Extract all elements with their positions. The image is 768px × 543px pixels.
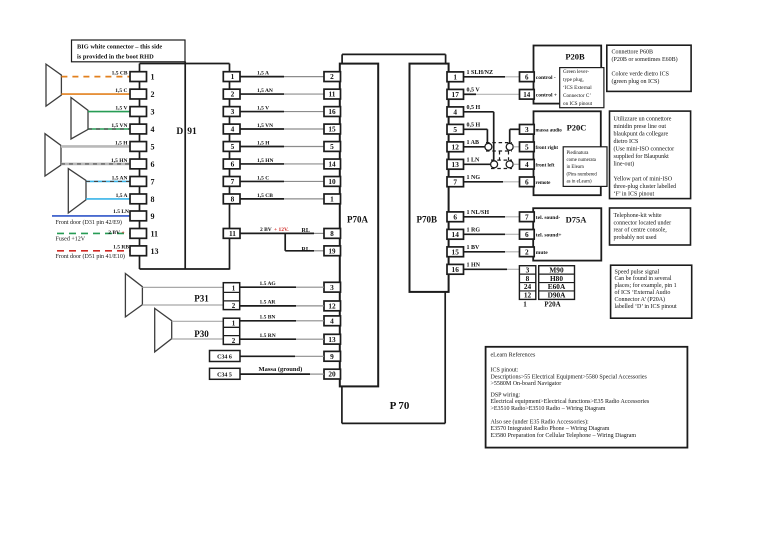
svg-text:Fused +12V: Fused +12V	[56, 237, 86, 243]
speed-pulse pin stack	[519, 266, 535, 300]
wire 1,5 H (grey)	[61, 145, 130, 148]
twisted pair shield (dashed)	[486, 142, 512, 144]
connector D75A box	[533, 208, 601, 260]
svg-text:Speed pulse signal: Speed pulse signal	[615, 269, 660, 275]
svg-text:1,5 H: 1,5 H	[115, 140, 128, 146]
wire 1.5 LN (blue) front door feed	[52, 215, 130, 217]
P70A pin 15	[324, 124, 341, 134]
note box: connettore P60B	[607, 45, 691, 91]
svg-text:16: 16	[328, 107, 336, 116]
svg-text:13: 13	[328, 335, 336, 344]
svg-text:3: 3	[330, 283, 334, 292]
P70B pin 14	[447, 229, 464, 239]
D91 pin 6 (radio side)	[223, 159, 240, 169]
svg-text:P70A: P70A	[347, 215, 368, 225]
svg-text:1: 1	[231, 72, 235, 81]
svg-text:1,5 CB: 1,5 CB	[112, 71, 128, 77]
svg-text:2: 2	[232, 302, 236, 310]
svg-text:1,5 H: 1,5 H	[257, 140, 270, 146]
svg-text:D75A: D75A	[566, 215, 588, 225]
pair node AB-left	[485, 143, 492, 150]
svg-text:1: 1	[232, 285, 236, 293]
D91 pin 7	[130, 177, 147, 187]
D75A pin 7	[520, 212, 535, 222]
svg-text:14: 14	[523, 91, 531, 99]
svg-text:type plug,: type plug,	[563, 77, 584, 83]
wire 0,5 V	[464, 93, 477, 95]
svg-text:2: 2	[525, 247, 529, 256]
P70B pin 12	[447, 142, 464, 152]
wire D91 bottom bus	[140, 268, 230, 270]
svg-text:remote: remote	[536, 181, 552, 186]
wire 1 AB	[464, 146, 486, 148]
svg-text:1,5 C: 1,5 C	[257, 175, 269, 181]
svg-text:1,5 V: 1,5 V	[257, 106, 269, 112]
svg-text:(Use mini-ISO connector: (Use mini-ISO connector	[614, 146, 675, 153]
D91 pin 11 (radio side)	[223, 229, 240, 239]
svg-text:Green lever-: Green lever-	[563, 69, 589, 75]
note box: piedinatura eLearn	[563, 147, 607, 187]
wire 0,5 H (pin 4) shield drop	[464, 111, 494, 113]
D91 pin 8	[130, 194, 147, 204]
connector C34 pin 6	[210, 351, 241, 362]
connector P30	[223, 318, 239, 344]
svg-text:2: 2	[151, 90, 155, 99]
D91 pin 11	[130, 229, 147, 239]
svg-text:0,5 V: 0,5 V	[467, 87, 481, 93]
P70B pin 1	[447, 72, 464, 82]
P70A pin 4	[324, 316, 341, 326]
wire AB to front right	[514, 146, 520, 148]
svg-text:1 SLH/NZ: 1 SLH/NZ	[467, 70, 494, 76]
svg-text:Telephone-kit white: Telephone-kit white	[614, 213, 662, 219]
svg-text:rear of centre console,: rear of centre console,	[614, 227, 668, 234]
svg-text:on ICS pinout: on ICS pinout	[563, 101, 593, 107]
P70A pin 2	[324, 72, 341, 82]
wire 1,5 CB to P70A	[240, 198, 284, 200]
svg-text:1 HN: 1 HN	[467, 262, 481, 268]
svg-text:Utilizzare un connettore: Utilizzare un connettore	[614, 117, 672, 123]
svg-text:Also see (under E35 Radio Acce: Also see (under E35 Radio Accessories):	[491, 418, 589, 425]
svg-text:91: 91	[187, 127, 197, 137]
svg-text:massa audio: massa audio	[536, 128, 563, 133]
D91 pin 4	[130, 124, 147, 134]
svg-text:3: 3	[151, 108, 155, 117]
note box: eLearn references	[486, 347, 688, 448]
svg-text:6: 6	[525, 177, 529, 186]
D91 pin 5 (radio side)	[223, 142, 240, 152]
D91 pin 8 (radio side)	[223, 194, 240, 204]
svg-text:>5580M On-board Navigator: >5580M On-board Navigator	[491, 381, 562, 387]
D91 pin 7 (radio side)	[223, 177, 240, 187]
wire 1 BV	[464, 251, 506, 253]
svg-text:Front door (D31 pin 42/E9): Front door (D31 pin 42/E9)	[56, 219, 122, 226]
speaker rear-right woofer	[68, 169, 86, 213]
P70A pin 1	[324, 194, 341, 204]
D91 pin 3	[130, 107, 147, 117]
svg-text:1: 1	[523, 301, 527, 309]
svg-text:15: 15	[452, 247, 460, 256]
svg-text:1,5 C: 1,5 C	[115, 88, 127, 94]
svg-text:6: 6	[525, 73, 529, 81]
wire 1,5 V (green)	[88, 111, 130, 113]
pair node LN-right	[506, 161, 513, 168]
svg-text:3: 3	[231, 107, 235, 116]
svg-text:8: 8	[330, 230, 334, 238]
svg-text:DSP wiring:: DSP wiring:	[491, 392, 521, 398]
svg-text:1,5 HN: 1,5 HN	[257, 158, 274, 164]
P20C pin 6	[520, 177, 535, 187]
svg-text:6: 6	[453, 212, 457, 221]
P70B pin 16	[447, 264, 464, 274]
svg-text:14: 14	[452, 230, 460, 239]
D91 pin 9	[130, 211, 147, 221]
svg-text:>E3510 Radio>E3510 Radio – Wir: >E3510 Radio>E3510 Radio – Wiring Diagra…	[491, 406, 606, 412]
wire shield to massa audio	[509, 129, 511, 143]
P70A pin 3	[324, 282, 341, 292]
svg-text:12: 12	[452, 142, 460, 151]
svg-text:P 70: P 70	[390, 400, 410, 412]
svg-text:D90A: D90A	[548, 291, 567, 300]
svg-text:+ 12V.: + 12V.	[274, 227, 289, 233]
P70B pin 13	[447, 159, 464, 169]
wire P31 speaker to pin 2	[142, 304, 223, 306]
svg-text:(green plug on ICS): (green plug on ICS)	[612, 78, 660, 85]
wire 1 RG	[464, 233, 506, 235]
P70A pin 9	[324, 351, 341, 361]
svg-text:Colore verde dietro ICS: Colore verde dietro ICS	[612, 72, 670, 78]
connector C34 pin 5	[210, 368, 241, 379]
svg-text:1.5 LN: 1.5 LN	[113, 209, 129, 215]
svg-text:Can be found in several: Can be found in several	[615, 275, 672, 282]
svg-text:9: 9	[151, 212, 155, 221]
svg-text:Descriptions>55 Electrical Equ: Descriptions>55 Electrical Equipment>558…	[491, 374, 648, 380]
svg-text:1 LN: 1 LN	[467, 157, 481, 163]
svg-text:P20A: P20A	[544, 301, 560, 309]
svg-text:come numerata: come numerata	[567, 158, 597, 163]
P70B pin 7	[447, 177, 464, 187]
note box: speed pulse	[611, 265, 692, 318]
wire 1,5 VN (green/black)	[88, 128, 130, 130]
svg-text:control +: control +	[536, 92, 557, 98]
svg-text:13: 13	[452, 160, 460, 169]
D91 pin 2	[130, 89, 147, 99]
svg-text:12: 12	[328, 302, 336, 311]
svg-text:P70B: P70B	[417, 215, 438, 225]
wire 1,5 V to P70A	[240, 111, 284, 113]
svg-text:1 AB: 1 AB	[467, 140, 480, 146]
wire D91 centre drop	[184, 62, 186, 270]
D91 pin 13	[130, 246, 147, 256]
svg-text:BIG white connector – this sid: BIG white connector – this side	[77, 43, 162, 50]
svg-text:Massa (ground): Massa (ground)	[259, 366, 303, 373]
svg-text:1 BV: 1 BV	[467, 245, 481, 251]
svg-text:minidin prese line out: minidin prese line out	[614, 124, 667, 130]
svg-text:tel. sound+: tel. sound+	[536, 232, 562, 238]
connector P31	[223, 283, 239, 310]
wire LN to front left	[513, 163, 519, 165]
svg-text:labelled ‘D’ in ICS pinout: labelled ‘D’ in ICS pinout	[615, 303, 678, 310]
P20B pin 14	[520, 90, 535, 100]
svg-text:1: 1	[151, 73, 155, 82]
svg-text:1: 1	[453, 72, 457, 81]
speaker rear-left tweeter	[46, 64, 61, 106]
wire 1.5 AR	[240, 305, 296, 307]
svg-text:places; for example, pin 1: places; for example, pin 1	[615, 282, 677, 289]
svg-text:11: 11	[151, 229, 159, 238]
svg-text:P30: P30	[194, 329, 209, 339]
pair node AB-right	[506, 143, 513, 150]
svg-text:‘ICS External: ‘ICS External	[563, 84, 592, 91]
D75A pin 2	[520, 247, 535, 257]
P70A pin 19	[324, 246, 341, 256]
svg-text:ICS pinout:: ICS pinout:	[491, 368, 519, 374]
connector P70B box	[410, 64, 449, 292]
svg-text:12: 12	[524, 291, 532, 300]
P70B pin 17	[447, 89, 464, 99]
svg-text:connector located under: connector located under	[614, 220, 672, 226]
P70A pin 8	[324, 229, 341, 239]
speed-pulse source labels	[539, 266, 575, 300]
svg-text:tel. sound-: tel. sound-	[536, 215, 561, 221]
svg-text:2: 2	[330, 72, 334, 81]
svg-text:1,5 A: 1,5 A	[257, 71, 269, 77]
P20C pin 4	[520, 160, 535, 170]
svg-text:5: 5	[151, 142, 155, 151]
wire 1 HN	[464, 268, 508, 270]
svg-text:dietro ICS: dietro ICS	[614, 139, 639, 145]
svg-text:Yellow part of mini-ISO: Yellow part of mini-ISO	[614, 176, 673, 183]
speaker front-left (P31)	[125, 274, 142, 317]
wire 1 LN	[464, 163, 491, 165]
note box: mini-ISO connector	[610, 111, 691, 199]
svg-text:2: 2	[231, 90, 235, 99]
wire P30 speaker to pin 2	[172, 338, 224, 340]
svg-text:5: 5	[231, 142, 235, 151]
svg-text:eLearn References: eLearn References	[491, 352, 536, 359]
svg-text:Connector A’ (P20A): Connector A’ (P20A)	[615, 296, 666, 303]
wire 1,5 A to P70A	[240, 76, 284, 78]
svg-text:8: 8	[151, 195, 155, 204]
svg-text:‘F’ in ICS pinout: ‘F’ in ICS pinout	[614, 191, 655, 198]
wire D91 left chain	[139, 64, 141, 270]
wire 1,5 C to P70A	[240, 180, 284, 182]
svg-text:7: 7	[151, 177, 155, 186]
svg-text:P20B: P20B	[565, 52, 585, 62]
P20C pin 3	[520, 125, 535, 135]
P70B pin 4	[447, 107, 464, 117]
wire 1.5 AG	[240, 286, 296, 288]
P70A pin 5	[324, 142, 341, 152]
svg-text:probably not used: probably not used	[614, 235, 657, 241]
svg-text:4: 4	[453, 107, 457, 116]
svg-text:1,5 HN: 1,5 HN	[111, 158, 128, 164]
svg-text:20: 20	[328, 370, 336, 379]
note box: telephone kit	[610, 208, 691, 245]
P20C pin 5	[520, 142, 535, 152]
wire 1.5 BN	[240, 320, 296, 322]
wire 1,5 A (light blue)	[86, 198, 130, 200]
svg-text:8: 8	[231, 194, 235, 203]
svg-text:line-out): line-out)	[614, 161, 635, 168]
svg-text:P20C: P20C	[567, 122, 587, 132]
P70B pin 15	[447, 247, 464, 257]
svg-text:4: 4	[525, 160, 529, 169]
D91 pin 3 (radio side)	[223, 107, 240, 117]
svg-text:17: 17	[452, 90, 460, 99]
svg-text:Electrical equipment>Electrica: Electrical equipment>Electrical function…	[491, 398, 650, 405]
svg-text:1.5 AG: 1.5 AG	[260, 281, 277, 287]
svg-text:in Elearn: in Elearn	[567, 165, 585, 170]
svg-text:0,5 H: 0,5 H	[467, 105, 481, 111]
svg-text:1,5 A: 1,5 A	[116, 193, 128, 199]
wire P70 top bridge	[342, 53, 446, 55]
svg-text:1 NL/SH: 1 NL/SH	[467, 210, 490, 216]
svg-text:1.5 BN: 1.5 BN	[260, 315, 276, 321]
connector P20C box	[534, 111, 601, 195]
svg-text:Piedinatura: Piedinatura	[567, 151, 590, 156]
svg-text:RL: RL	[302, 228, 310, 234]
svg-text:as in eLearn): as in eLearn)	[567, 180, 592, 185]
wire D91 top bus	[140, 63, 230, 65]
connector P20B box	[534, 46, 602, 104]
svg-text:2 BV: 2 BV	[260, 227, 272, 233]
svg-text:5: 5	[330, 142, 334, 151]
wire 1,5 C (orange)	[61, 93, 130, 95]
svg-text:C34 5: C34 5	[217, 372, 232, 378]
note box: green lever plug	[560, 68, 604, 108]
svg-text:D: D	[176, 127, 183, 137]
wire 1,5 CB (orange dashed)	[61, 76, 130, 78]
wire D91 right chain	[229, 64, 231, 270]
wire 1 NL/SH	[464, 216, 506, 218]
svg-text:1 RG: 1 RG	[467, 227, 481, 233]
wire RL branch to P70A pin 19	[284, 233, 286, 250]
P70A pin 20	[324, 369, 341, 379]
svg-text:1,5 AN: 1,5 AN	[257, 88, 273, 94]
svg-text:1,5 AN: 1,5 AN	[112, 175, 128, 181]
wire 1 SLH/NZ	[464, 76, 506, 78]
svg-text:1,5 CB: 1,5 CB	[257, 193, 273, 199]
svg-text:blaukpunt da collegare: blaukpunt da collegare	[614, 132, 669, 138]
D75A pin 6	[520, 230, 535, 240]
P70B pin 6	[447, 212, 464, 222]
wire 1,5 H to P70A	[240, 145, 284, 147]
P70 outer outline	[341, 386, 343, 423]
connector P70A box	[340, 64, 378, 387]
svg-text:P31: P31	[194, 293, 209, 303]
speaker rear-right tweeter	[45, 134, 61, 176]
P70A pin 10	[324, 177, 341, 187]
svg-text:19: 19	[329, 247, 337, 255]
wire 1,5 HN to P70A	[240, 163, 284, 165]
P70A pin 13	[324, 334, 341, 344]
svg-text:6: 6	[231, 160, 235, 169]
wire 1 NG	[464, 181, 504, 183]
svg-text:6: 6	[151, 160, 155, 169]
svg-text:4: 4	[330, 316, 334, 325]
P70A pin 11	[324, 89, 341, 99]
svg-text:16: 16	[452, 265, 460, 274]
svg-text:15: 15	[328, 125, 336, 134]
svg-text:13: 13	[151, 247, 159, 256]
wire 1.5 RN	[240, 338, 296, 340]
svg-text:mute: mute	[536, 250, 548, 256]
P70A pin 14	[324, 159, 341, 169]
svg-text:7: 7	[453, 177, 457, 186]
svg-text:Connettore P60B: Connettore P60B	[612, 50, 654, 56]
svg-text:14: 14	[328, 160, 336, 169]
wire P30 speaker to pin 1	[172, 320, 224, 322]
note box: BIG white connector	[72, 40, 186, 62]
svg-text:1.5 RB: 1.5 RB	[113, 245, 129, 251]
svg-text:1,5 VN: 1,5 VN	[257, 123, 273, 129]
wire 1,5 HN (grey/black)	[61, 163, 130, 166]
svg-text:C34 6: C34 6	[217, 355, 232, 361]
svg-text:front right: front right	[536, 146, 559, 151]
svg-text:front left: front left	[536, 163, 555, 168]
svg-text:1 NG: 1 NG	[467, 175, 481, 181]
wire 1.5 RB (red dashed) front door	[57, 250, 130, 252]
svg-text:5: 5	[453, 125, 457, 134]
wire 1,5 VN to P70A	[240, 128, 284, 130]
svg-text:6: 6	[525, 230, 529, 239]
svg-text:11: 11	[329, 90, 336, 99]
wire 2 BV +12V to P70A pin 8	[240, 232, 314, 234]
speaker front-right (P30)	[155, 308, 172, 352]
svg-text:7: 7	[231, 177, 235, 186]
svg-text:7: 7	[525, 212, 529, 221]
D91 pin 2 (radio side)	[223, 89, 240, 99]
P70B pin 5	[447, 124, 464, 134]
svg-text:of ICS ‘External Audio: of ICS ‘External Audio	[615, 289, 671, 296]
svg-text:(Pins numbered: (Pins numbered	[567, 172, 598, 177]
svg-text:control -: control -	[536, 75, 556, 81]
wire 1,5 AN (light blue/black)	[86, 180, 130, 182]
svg-text:11: 11	[229, 229, 236, 238]
svg-text:(P20B or sometimes E60B): (P20B or sometimes E60B)	[612, 56, 678, 63]
svg-text:1.5 AR: 1.5 AR	[260, 300, 277, 306]
svg-text:1: 1	[232, 319, 236, 327]
svg-text:RL: RL	[302, 247, 310, 253]
P20B pin 6	[520, 72, 535, 82]
svg-text:three-plug cluster labelled: three-plug cluster labelled	[614, 184, 677, 190]
svg-text:1,5 VN: 1,5 VN	[111, 123, 127, 129]
svg-text:4: 4	[231, 125, 235, 134]
svg-text:1: 1	[330, 194, 334, 203]
svg-text:Connector C’: Connector C’	[563, 93, 591, 99]
svg-text:is provided in the boot RHD: is provided in the boot RHD	[77, 54, 154, 61]
wire massa ground to P70A pin 20	[240, 373, 310, 375]
D91 pin 1	[130, 72, 147, 82]
svg-text:Front door (D51 pin 41/E10): Front door (D51 pin 41/E10)	[56, 253, 125, 260]
svg-text:1,5 V: 1,5 V	[115, 106, 127, 112]
svg-text:3: 3	[525, 125, 529, 134]
svg-text:0,5 H: 0,5 H	[467, 122, 481, 128]
svg-text:2: 2	[232, 337, 236, 345]
D91 pin 6	[130, 159, 147, 169]
pair node LN-left	[491, 161, 498, 168]
svg-text:9: 9	[330, 352, 334, 361]
svg-text:+: +	[122, 230, 125, 236]
svg-text:supplied for Blaupunkt: supplied for Blaupunkt	[614, 153, 670, 160]
speaker rear-left woofer	[71, 98, 88, 140]
svg-text:4: 4	[151, 125, 155, 134]
wire 1,5 AN to P70A	[240, 93, 284, 95]
D91 pin 4 (radio side)	[223, 124, 240, 134]
wire 2 BV + fused 12V (green dashed)	[57, 232, 130, 234]
svg-text:5: 5	[525, 142, 529, 151]
